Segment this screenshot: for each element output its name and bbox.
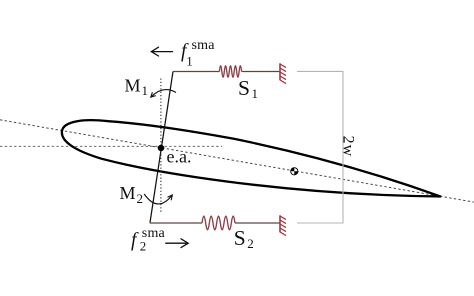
svg-text:M: M — [125, 76, 141, 96]
svg-text:2w: 2w — [339, 136, 356, 158]
svg-text:1: 1 — [142, 83, 149, 98]
svg-text:1: 1 — [186, 53, 193, 68]
svg-text:sma: sma — [142, 226, 166, 241]
svg-text:S: S — [234, 226, 246, 250]
svg-text:M: M — [120, 183, 136, 203]
svg-text:2: 2 — [137, 191, 144, 206]
svg-text:sma: sma — [192, 38, 216, 53]
svg-text:2: 2 — [247, 236, 254, 251]
svg-text:1: 1 — [252, 86, 259, 101]
svg-text:e.a.: e.a. — [167, 147, 192, 167]
svg-text:S: S — [238, 76, 250, 100]
